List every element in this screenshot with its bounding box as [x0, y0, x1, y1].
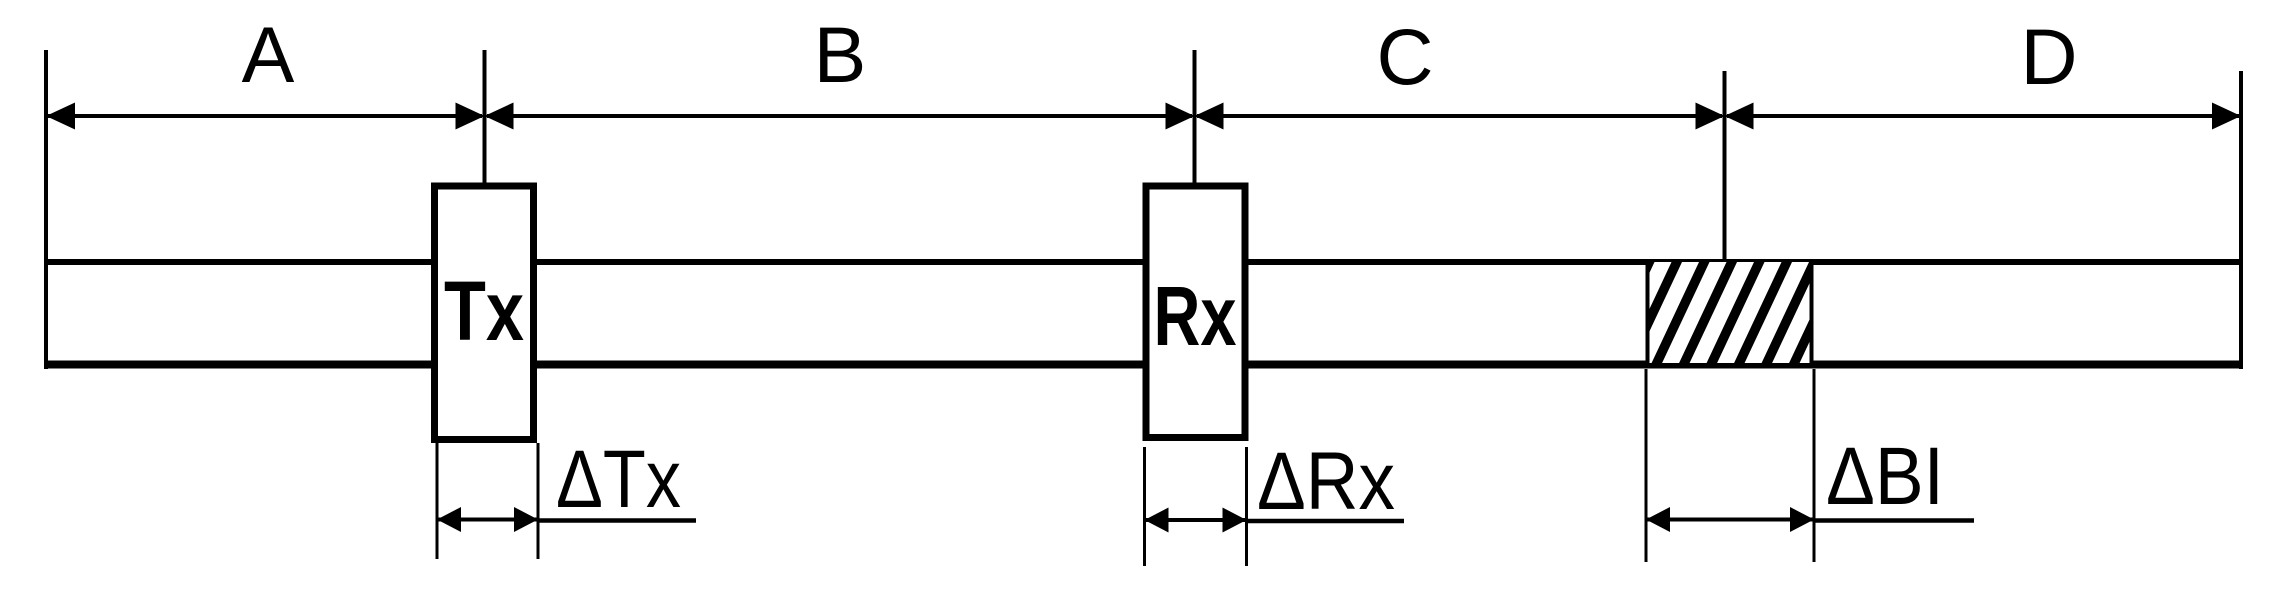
svg-text:A: A [242, 10, 295, 99]
dimension arrow A [46, 103, 485, 130]
Rx block [1146, 186, 1245, 438]
Tx width extension line right [537, 443, 540, 559]
burst hatch block [1596, 250, 1875, 375]
svg-text:Tx: Tx [444, 264, 524, 358]
burst hatch border left [1646, 262, 1650, 363]
svg-text:D: D [2020, 12, 2077, 101]
right boundary tick [2239, 71, 2243, 369]
dimension arrow C [1195, 103, 1725, 130]
delta-Rx arrow [1145, 508, 1247, 533]
svg-text:Rx: Rx [1154, 269, 1237, 363]
Tx center tick [483, 50, 487, 184]
Rx width extension line right [1245, 447, 1248, 566]
left boundary tick [44, 50, 48, 369]
burst boundary tick [1723, 71, 1727, 262]
dimension arrow B [485, 103, 1195, 130]
Rx width extension line left [1143, 447, 1146, 566]
delta-Rx leader line [1246, 519, 1404, 524]
delta-BI leader line [1814, 518, 1974, 523]
burst width extension line left [1645, 369, 1648, 562]
frame bar bottom [46, 361, 2241, 369]
svg-text:ΔRx: ΔRx [1257, 436, 1395, 527]
svg-text:C: C [1376, 12, 1433, 101]
svg-text:ΔTx: ΔTx [556, 434, 681, 525]
dimension arrow D [1725, 103, 2242, 130]
Rx center tick [1193, 50, 1197, 184]
Tx width extension line left [436, 443, 439, 559]
burst width extension line right [1813, 369, 1816, 562]
frame bar top [46, 259, 2241, 265]
delta-BI arrow [1646, 507, 1814, 532]
delta-Tx leader line [537, 518, 696, 523]
svg-text:B: B [814, 10, 867, 99]
svg-text:ΔBI: ΔBI [1826, 431, 1944, 522]
delta-Tx arrow [437, 507, 538, 532]
burst hatch border right [1810, 262, 1814, 363]
Tx block [435, 186, 534, 440]
